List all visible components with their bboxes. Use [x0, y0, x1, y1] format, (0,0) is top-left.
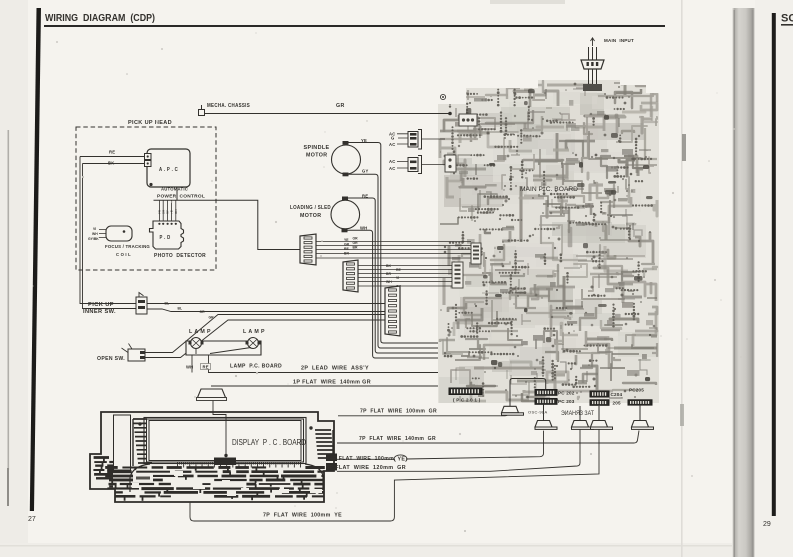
svg-text:OR: OR	[200, 310, 206, 314]
svg-text:AC: AC	[389, 166, 395, 171]
svg-text:BR: BR	[386, 272, 391, 276]
svg-text:MECHA. CHASSIS: MECHA. CHASSIS	[207, 103, 250, 109]
svg-text:GR: GR	[336, 103, 345, 109]
svg-text:RE: RE	[109, 150, 115, 155]
svg-text:YE: YE	[344, 238, 349, 242]
svg-text:7P FLAT WIRE 140mm GR: 7P FLAT WIRE 140mm GR	[359, 436, 436, 442]
svg-text:( P C 2 0 1 ): ( P C 2 0 1 )	[453, 398, 481, 403]
svg-text:MOTOR: MOTOR	[306, 153, 327, 159]
svg-text:PHOTO DETECTOR: PHOTO DETECTOR	[154, 253, 206, 259]
svg-text:AC: AC	[389, 159, 395, 164]
svg-text:BK: BK	[386, 264, 391, 268]
svg-text:VI: VI	[396, 276, 399, 280]
svg-text:YE: YE	[398, 457, 406, 463]
svg-text:2P LEAD WIRE ASS’Y: 2P LEAD WIRE ASS’Y	[301, 366, 369, 372]
svg-text:SC: SC	[781, 13, 793, 25]
svg-text:VI: VI	[93, 227, 96, 231]
svg-text:FOCUS / TRACKING: FOCUS / TRACKING	[105, 244, 150, 249]
svg-text:LOADING / SLED: LOADING / SLED	[290, 205, 331, 211]
svg-text:PC 202: PC 202	[558, 391, 575, 396]
svg-text:A . P . C: A . P . C	[159, 167, 178, 173]
svg-text:WH: WH	[92, 232, 98, 236]
svg-text:SPINDLE: SPINDLE	[304, 145, 330, 151]
svg-text:C O I L: C O I L	[116, 252, 131, 257]
svg-text:GY: GY	[362, 169, 368, 174]
svg-text:DISPLAY P . C . BOARD: DISPLAY P . C . BOARD	[232, 438, 306, 447]
svg-text:O S C - 9 L A: O S C - 9 L A	[528, 410, 547, 415]
svg-text:29: 29	[763, 521, 771, 528]
svg-text:GY/BK: GY/BK	[88, 237, 99, 241]
svg-text:RE: RE	[344, 247, 349, 251]
svg-text:ЭИAHЯЗ ЗAT: ЭИAHЯЗ ЗAT	[561, 411, 594, 417]
svg-text:BR: BR	[344, 252, 349, 256]
svg-text:7P FLAT WIRE 100mm YE: 7P FLAT WIRE 100mm YE	[263, 513, 342, 519]
svg-text:PC205: PC205	[629, 388, 644, 393]
svg-text:WIRING DIAGRAM (CDP): WIRING DIAGRAM (CDP)	[45, 13, 155, 24]
svg-text:1P FLAT WIRE 140mm GR: 1P FLAT WIRE 140mm GR	[293, 380, 371, 386]
svg-text:PICK UP HEAD: PICK UP HEAD	[128, 120, 172, 126]
svg-text:C204: C204	[611, 392, 623, 397]
svg-text:27: 27	[28, 516, 36, 523]
svg-text:L A M P: L A M P	[189, 329, 211, 335]
svg-text:RE: RE	[203, 365, 209, 370]
svg-text:GN: GN	[174, 210, 178, 215]
svg-text:BL: BL	[178, 307, 183, 311]
svg-text:205: 205	[613, 401, 622, 406]
svg-text:PC 203: PC 203	[558, 399, 575, 404]
svg-text:AC: AC	[389, 142, 395, 147]
svg-text:POWER CONTROL: POWER CONTROL	[157, 194, 205, 199]
svg-text:AUTOMATIC: AUTOMATIC	[161, 187, 188, 192]
svg-text:OR: OR	[353, 237, 359, 241]
svg-text:BR: BR	[353, 246, 358, 250]
svg-text:MOTOR: MOTOR	[300, 213, 321, 219]
svg-text:INNER SW.: INNER SW.	[83, 309, 116, 315]
svg-text:GR: GR	[344, 243, 350, 247]
svg-text:P . D: P . D	[160, 235, 171, 241]
svg-text:OPEN SW.: OPEN SW.	[97, 356, 125, 362]
svg-text:PICK UP: PICK UP	[88, 302, 114, 308]
svg-text:LAMP P.C. BOARD: LAMP P.C. BOARD	[230, 364, 282, 370]
svg-text:MAIN INPUT: MAIN INPUT	[604, 38, 634, 43]
svg-text:L A M P: L A M P	[243, 329, 265, 335]
svg-text:WH: WH	[386, 280, 392, 284]
svg-text:8P FLAT WIRE 120mm GR: 8P FLAT WIRE 120mm GR	[326, 465, 406, 471]
svg-text:G: G	[391, 136, 394, 141]
svg-text:MAIN P. C. BOARD: MAIN P. C. BOARD	[520, 186, 578, 193]
svg-text:7P FLAT WIRE 100mm GR: 7P FLAT WIRE 100mm GR	[360, 409, 437, 415]
svg-text:RE: RE	[396, 268, 401, 272]
svg-text:OR: OR	[353, 241, 359, 245]
